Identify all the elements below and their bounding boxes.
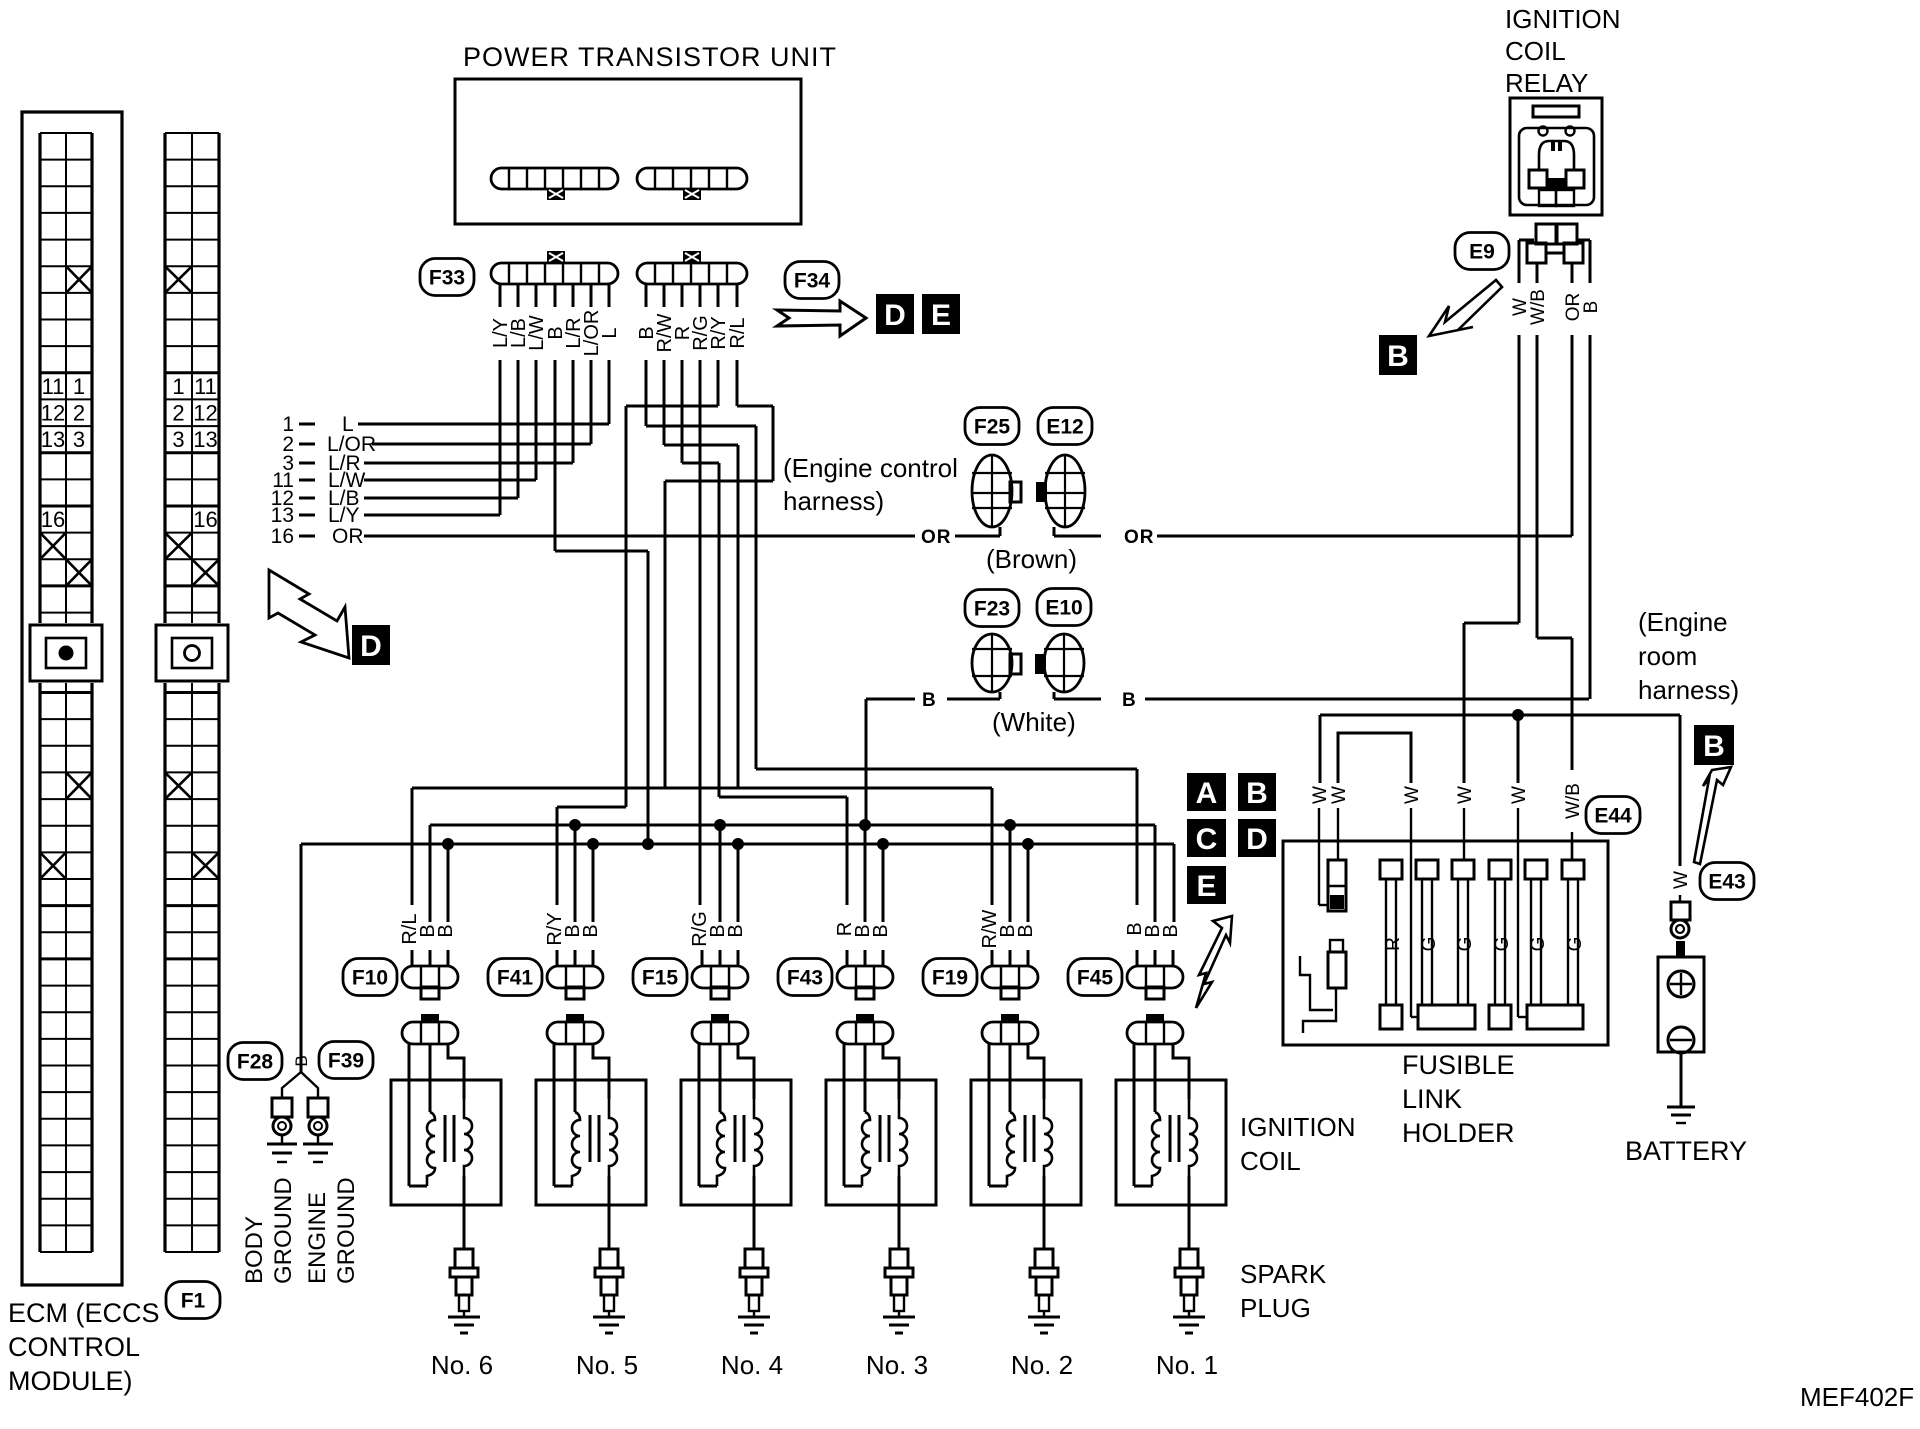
wire W bracket: [1338, 733, 1411, 783]
ignition coil No. 3 transformer: [826, 1044, 936, 1249]
coil No. 5 wire stubs and labels: [544, 825, 602, 966]
wire B to coil ground bus: [865, 699, 868, 825]
svg-text:W: W: [1509, 786, 1530, 804]
connector F43: [778, 959, 893, 1000]
connector F25 (engine control harness, brown): [972, 455, 1021, 527]
fusible link W wire labels: [1310, 786, 1530, 841]
svg-text:C: C: [1196, 823, 1218, 856]
label No. 3: [866, 1350, 928, 1380]
label No. 2: [1011, 1350, 1073, 1380]
svg-text:harness): harness): [783, 486, 884, 516]
svg-text:SPARK: SPARK: [1240, 1259, 1327, 1289]
spark plug No. 5: [593, 1249, 625, 1333]
svg-text:G: G: [1528, 937, 1549, 952]
ignition coil No. 5 transformer: [536, 1044, 646, 1249]
svg-text:R: R: [1383, 937, 1404, 951]
wire W from relay: [1464, 335, 1519, 783]
svg-text:B: B: [725, 924, 747, 937]
connector F1 strip (right, 2-column grid): [154, 133, 230, 1252]
svg-text:LINK: LINK: [1402, 1084, 1462, 1114]
connector E10 label: [1037, 589, 1091, 626]
wire W branch to fusible link: [1517, 715, 1520, 783]
svg-text:ECM (ECCS: ECM (ECCS: [8, 1298, 160, 1328]
connector F19: [923, 959, 1038, 1000]
ignition coil ground bus (lower): [301, 838, 1174, 1008]
svg-text:11: 11: [42, 374, 65, 399]
svg-text:F1: F1: [181, 1289, 206, 1312]
label (Brown): [986, 544, 1077, 574]
coil No. 6 wire stubs and labels: [399, 844, 457, 966]
label No. 1: [1156, 1350, 1218, 1380]
svg-text:ENGINE: ENGINE: [304, 1192, 331, 1284]
svg-text:No. 1: No. 1: [1156, 1350, 1218, 1380]
svg-text:FUSIBLE: FUSIBLE: [1402, 1050, 1515, 1080]
svg-text:No. 5: No. 5: [576, 1350, 638, 1380]
connector F45: [1068, 959, 1183, 1000]
svg-text:OR: OR: [332, 525, 364, 548]
svg-text:MODULE): MODULE): [8, 1366, 133, 1396]
wire R jog (682 to 719): [682, 463, 719, 797]
svg-text:(Engine control: (Engine control: [783, 453, 958, 483]
detail box A: [1187, 773, 1226, 811]
svg-text:F23: F23: [974, 597, 1010, 620]
svg-text:B: B: [1246, 777, 1268, 810]
svg-text:L: L: [599, 327, 621, 338]
wire R/W jog (664 to 738): [664, 445, 738, 788]
coil No. 2 connector: [982, 1014, 1038, 1044]
detail box D (bus): [1238, 819, 1276, 857]
detail box D (top): [876, 294, 914, 334]
svg-text:F39: F39: [328, 1049, 364, 1072]
svg-text:E: E: [1196, 870, 1216, 903]
arrow to detail B (relay): [1429, 280, 1502, 336]
svg-text:16: 16: [271, 525, 294, 548]
connector E9: [1519, 224, 1590, 283]
fusible link W/B wire label: [1563, 783, 1584, 860]
label No. 6: [431, 1350, 493, 1380]
engine ground symbol: [303, 1098, 333, 1162]
connector E12 label: [1038, 408, 1092, 445]
svg-text:3: 3: [73, 427, 85, 452]
ignition coil No. 1 transformer: [1116, 1044, 1226, 1249]
connector F23 (engine control harness, white): [972, 634, 1021, 692]
svg-text:(White): (White): [992, 707, 1076, 737]
svg-text:B: B: [922, 690, 936, 711]
arrow to detail B (battery): [1694, 767, 1731, 864]
spark plug No. 3: [883, 1249, 915, 1333]
label POWER TRANSISTOR UNIT: [463, 42, 837, 72]
power transistor internal connector bar 1: [491, 168, 618, 200]
ignition coil No. 4 transformer: [681, 1044, 791, 1249]
svg-text:W/B: W/B: [1528, 289, 1549, 325]
coil No. 4 connector: [692, 1014, 748, 1044]
label BATTERY: [1625, 1136, 1747, 1166]
svg-text:B: B: [435, 924, 457, 937]
wire B row segments: [866, 690, 1589, 711]
svg-text:MEF402F: MEF402F: [1800, 1382, 1914, 1412]
svg-text:G: G: [1565, 937, 1586, 952]
svg-text:A: A: [1196, 777, 1218, 810]
connector F10: [343, 959, 458, 1000]
connector E9 label: [1455, 233, 1509, 270]
connector F15: [633, 959, 748, 1000]
svg-text:No. 3: No. 3: [866, 1350, 928, 1380]
svg-text:W: W: [1455, 786, 1476, 804]
label IGNITION COIL: [1240, 1112, 1356, 1176]
svg-text:B: B: [1015, 924, 1037, 937]
coil No. 5 connector: [547, 1014, 603, 1044]
svg-text:16: 16: [41, 507, 65, 532]
svg-text:E44: E44: [1594, 804, 1632, 827]
connector E12 (engine room harness, brown): [1036, 455, 1085, 527]
label No. 5: [576, 1350, 638, 1380]
svg-text:F45: F45: [1077, 966, 1114, 989]
wire B to body/engine ground: [282, 1008, 318, 1098]
spark plug No. 1: [1173, 1249, 1205, 1333]
svg-text:F10: F10: [352, 966, 388, 989]
svg-text:No. 2: No. 2: [1011, 1350, 1073, 1380]
connector F34 label: [785, 262, 839, 299]
svg-text:GROUND: GROUND: [270, 1177, 297, 1284]
coil No. 3 connector: [837, 1014, 893, 1044]
detail box E: [1187, 866, 1226, 904]
connector E43 label: [1700, 863, 1754, 900]
svg-text:No. 6: No. 6: [431, 1350, 493, 1380]
label BODY GROUND: [241, 1177, 297, 1284]
ignition coil B bus (upper): [430, 819, 1155, 922]
svg-text:(Brown): (Brown): [986, 544, 1077, 574]
svg-text:BATTERY: BATTERY: [1625, 1136, 1747, 1166]
body ground symbol: [267, 1098, 297, 1162]
label No. 4: [721, 1350, 783, 1380]
ECM connector strip (left, 2-column grid): [28, 133, 104, 1252]
wire R/L + R/W row: [412, 788, 992, 905]
svg-text:D: D: [884, 299, 906, 332]
svg-text:13: 13: [193, 427, 217, 452]
ECM pin 16 OR wire row: [271, 525, 915, 548]
wire W/B from relay: [1537, 335, 1572, 770]
svg-text:room: room: [1638, 641, 1697, 671]
svg-text:12: 12: [41, 400, 65, 425]
connector F39 label: [319, 1042, 373, 1079]
power transistor internal connector bar 2: [637, 168, 747, 200]
svg-text:B: B: [1122, 690, 1136, 711]
svg-text:OR: OR: [921, 527, 952, 548]
svg-text:GROUND: GROUND: [333, 1177, 360, 1284]
E9 pin labels: [1510, 289, 1602, 325]
label SPARK PLUG: [1240, 1259, 1327, 1323]
connector F25 label: [965, 408, 1019, 445]
connector F28 label: [228, 1043, 282, 1080]
F33 pin wires with colour labels: [490, 284, 621, 551]
label ECM (ECCS CONTROL MODULE): [8, 1298, 160, 1396]
wire B to ignition coil No.1: [756, 769, 1137, 905]
svg-text:F43: F43: [787, 966, 823, 989]
svg-text:D: D: [1246, 823, 1268, 856]
svg-text:F25: F25: [974, 415, 1011, 438]
svg-text:F41: F41: [497, 966, 534, 989]
svg-text:harness): harness): [1638, 675, 1739, 705]
battery: [1658, 957, 1704, 1053]
wire OR row segments: [921, 527, 1572, 548]
coil No. 6 connector: [402, 1014, 458, 1044]
svg-text:W: W: [1329, 786, 1350, 804]
svg-text:11: 11: [194, 374, 217, 399]
svg-text:F15: F15: [642, 966, 679, 989]
wire R/L jog lower (773 to 665): [665, 481, 773, 788]
coil No. 4 wire stubs and labels: [689, 825, 747, 966]
svg-text:E9: E9: [1469, 240, 1495, 263]
coil No. 1 connector: [1127, 1014, 1183, 1044]
wire R/L jog upper (737 to 773): [737, 406, 773, 481]
ECM (ECCS control module) outer box: [22, 112, 122, 1285]
svg-text:No. 4: No. 4: [721, 1350, 783, 1380]
svg-text:RELAY: RELAY: [1505, 68, 1588, 98]
connector F23 label: [965, 590, 1019, 627]
detail box C: [1187, 819, 1226, 857]
spark plug No. 4: [738, 1249, 770, 1333]
label IGNITION COIL RELAY: [1505, 4, 1621, 98]
label ENGINE GROUND: [304, 1177, 360, 1284]
wire R/Y row to coil No.5: [557, 807, 626, 905]
wire B from relay: [1589, 335, 1592, 699]
detail box B (relay): [1379, 335, 1417, 375]
ECM pin list rows 1,2,3,11,12,13: [271, 413, 609, 527]
arrow to details A-E: [1196, 916, 1232, 1008]
svg-text:E12: E12: [1046, 415, 1083, 438]
battery ground: [1667, 1052, 1695, 1123]
spark plug No. 2: [1028, 1249, 1060, 1333]
svg-text:2: 2: [172, 400, 184, 425]
wire R row to coil No.3: [719, 797, 847, 905]
detail box B (battery): [1694, 725, 1734, 765]
connector F34 bar: [637, 251, 747, 284]
svg-text:L/Y: L/Y: [328, 504, 360, 527]
label (Engine control harness): [783, 453, 958, 516]
detail box B (bus): [1238, 773, 1276, 811]
svg-text:CONTROL: CONTROL: [8, 1332, 140, 1362]
label (Engine room harness): [1638, 607, 1739, 705]
svg-text:(Engine: (Engine: [1638, 607, 1728, 637]
svg-text:B: B: [1581, 301, 1602, 314]
svg-text:E43: E43: [1708, 870, 1745, 893]
svg-text:13: 13: [41, 427, 65, 452]
coil No. 1 wire stubs and labels: [1124, 922, 1182, 966]
svg-text:1: 1: [73, 374, 85, 399]
wire R/Y jog (718 to 626): [626, 406, 718, 807]
wire W battery feed line: [1320, 709, 1680, 866]
label (White): [992, 707, 1076, 737]
svg-text:W: W: [1671, 871, 1692, 889]
wire B jog (646 to 756): [646, 426, 756, 769]
svg-text:HOLDER: HOLDER: [1402, 1118, 1515, 1148]
connector F33 bar: [491, 251, 618, 284]
F34 pin wires with colour labels: [636, 284, 749, 905]
svg-text:W: W: [1402, 786, 1423, 804]
svg-text:12: 12: [193, 400, 217, 425]
svg-text:B: B: [580, 924, 602, 937]
svg-text:B: B: [870, 924, 892, 937]
svg-text:IGNITION: IGNITION: [1505, 4, 1621, 34]
ignition coil No. 2 transformer: [971, 1044, 1081, 1249]
svg-text:W/B: W/B: [1563, 783, 1584, 819]
ignition coil relay: [1510, 98, 1602, 215]
connector F33 label: [420, 259, 474, 296]
fusible link holder: [1283, 841, 1608, 1045]
svg-text:G: G: [1419, 937, 1440, 952]
svg-text:B: B: [1387, 340, 1409, 373]
detail box E (top): [922, 294, 960, 334]
arrow to detail D E: [777, 301, 866, 336]
svg-text:W: W: [1310, 786, 1331, 804]
label MEF402F: [1800, 1382, 1914, 1412]
svg-text:F34: F34: [794, 269, 831, 292]
svg-text:F19: F19: [932, 966, 968, 989]
power transistor unit box: [455, 79, 801, 224]
wire R/G straight down: [699, 360, 702, 905]
svg-text:1: 1: [172, 374, 184, 399]
svg-text:G: G: [1455, 937, 1476, 952]
wire OR from relay: [1571, 335, 1574, 536]
arrow to detail D (ECM): [269, 570, 349, 658]
battery connector E43: [1671, 871, 1692, 957]
svg-text:3: 3: [172, 427, 184, 452]
svg-text:R/L: R/L: [727, 317, 749, 348]
svg-text:PLUG: PLUG: [1240, 1293, 1311, 1323]
wire B jog from F33 (555 to 648): [555, 551, 648, 844]
connector E44 label: [1586, 797, 1640, 834]
svg-text:COIL: COIL: [1505, 36, 1566, 66]
svg-text:G: G: [1492, 937, 1513, 952]
svg-text:IGNITION: IGNITION: [1240, 1112, 1356, 1142]
svg-text:F28: F28: [237, 1050, 274, 1073]
svg-text:2: 2: [73, 400, 85, 425]
svg-text:B: B: [1160, 924, 1182, 937]
coil No. 3 wire stubs and labels: [834, 825, 892, 966]
ignition coil No. 6 transformer: [391, 1044, 501, 1249]
coil No. 2 wire stubs and labels: [979, 825, 1037, 966]
detail box D (ECM): [352, 625, 390, 665]
svg-text:E: E: [931, 299, 951, 332]
svg-text:OR: OR: [1124, 527, 1155, 548]
label FUSIBLE LINK HOLDER: [1402, 1050, 1515, 1148]
svg-text:B: B: [1703, 730, 1725, 763]
svg-text:D: D: [360, 630, 382, 663]
svg-text:13: 13: [271, 504, 294, 527]
connector F1 label: [166, 1282, 220, 1319]
svg-text:COIL: COIL: [1240, 1146, 1301, 1176]
svg-text:E10: E10: [1045, 596, 1082, 619]
spark plug No. 6: [448, 1249, 480, 1333]
svg-text:16: 16: [193, 507, 217, 532]
svg-text:BODY: BODY: [241, 1216, 268, 1284]
svg-text:POWER TRANSISTOR UNIT: POWER TRANSISTOR UNIT: [463, 42, 837, 72]
svg-text:F33: F33: [429, 266, 465, 289]
connector F41: [488, 959, 603, 1000]
connector E10 (engine room harness, white): [1035, 634, 1084, 692]
